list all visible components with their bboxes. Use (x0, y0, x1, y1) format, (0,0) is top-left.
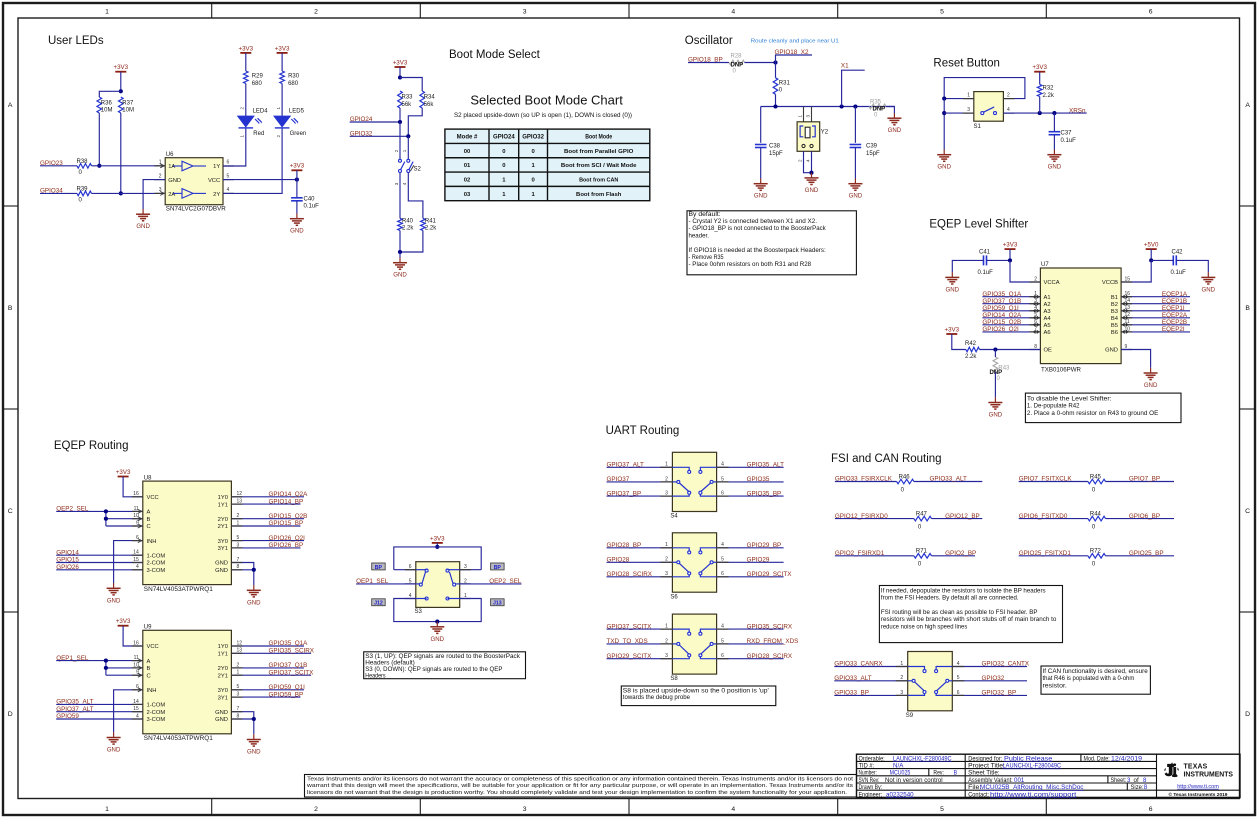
svg-text:1Y1: 1Y1 (218, 502, 228, 508)
svg-text:GPIO59_Q1I: GPIO59_Q1I (269, 684, 306, 691)
ground after R35 (887, 113, 901, 134)
svg-text:S6: S6 (670, 594, 678, 600)
svg-text:Reset Button: Reset Button (933, 58, 999, 70)
svg-text:B6: B6 (1111, 330, 1118, 336)
wire U9 to GPIO35_Q1A (231, 645, 304, 647)
ground under S3 (430, 622, 444, 643)
power +3V3 at U6 VCC (290, 163, 305, 171)
svg-text:RXD_FROM_XDS: RXD_FROM_XDS (747, 638, 799, 645)
wire QEP1_SEL to A/B/C pins (56, 660, 143, 662)
svg-text:+3V3: +3V3 (1003, 242, 1018, 249)
svg-text:GND: GND (1048, 164, 1062, 171)
node C37/XRSn (1052, 111, 1056, 115)
svg-text:6: 6 (721, 571, 724, 577)
svg-text:resistors will be branches wit: resistors will be branches with short st… (881, 616, 1057, 623)
svg-text:GPIO7_BP: GPIO7_BP (1129, 476, 1160, 483)
wire S6 pin 6 to GPIO29_SCITX (717, 576, 784, 578)
wire U7 to EQEP1A (1121, 296, 1190, 298)
resistor R32 2.2k (1037, 84, 1054, 98)
svg-text:6: 6 (721, 491, 724, 497)
wire C38 to ground (760, 148, 762, 179)
svg-text:4: 4 (721, 462, 724, 468)
wire junction to R36 (99, 91, 121, 97)
svg-text:EQEP2A: EQEP2A (1162, 312, 1188, 319)
op-amp buffer U6 SN74LVC2G07DBVR (165, 152, 226, 212)
wire U8 INH to ground (114, 541, 143, 584)
svg-text:5: 5 (721, 638, 724, 644)
svg-text:1Y0: 1Y0 (218, 495, 228, 501)
svg-text:LED4: LED4 (253, 108, 269, 114)
power +3V3 at R32 (1032, 64, 1047, 72)
ground at U9 INH (107, 732, 121, 753)
svg-text:S3: S3 (415, 609, 423, 615)
svg-text:4: 4 (731, 8, 735, 15)
wire U6 VCC to +3V3/C40 (223, 179, 297, 181)
svg-text:N/A: N/A (893, 764, 903, 770)
wire +3V3 to junction (399, 67, 401, 78)
wire node to U7 VCCA pin 2 (1010, 260, 1040, 282)
svg-text:© Texas Instruments 2019: © Texas Instruments 2019 (1169, 791, 1228, 798)
wire S9 pin 6 to GPIO32_BP (952, 694, 1027, 696)
wire R46 to GPIO33_ALT (914, 481, 982, 483)
wire GPIO6_FSITXD0 to R44 (1019, 518, 1088, 520)
wire GPIO7_FSITXCLK to R45 (1019, 481, 1088, 483)
LED LED4 Red (238, 107, 269, 138)
wire C37 to ground (1053, 135, 1055, 150)
wire S1 pin 1 (944, 98, 974, 100)
svg-text:B4: B4 (1111, 316, 1119, 322)
svg-text:2: 2 (394, 149, 399, 152)
svg-text:TXB0106PWR: TXB0106PWR (1041, 367, 1082, 373)
op-amp U9 SN74LV4053ATPWRQ1 analog mux (143, 625, 232, 743)
wire U7 to EQEP1B (1121, 303, 1190, 305)
crystal Y2 (797, 107, 829, 163)
pin numbers U8 left (133, 491, 139, 570)
pin stubs S1 (963, 99, 1015, 114)
svg-text:header.: header. (689, 232, 710, 239)
svg-text:FSI and CAN Routing: FSI and CAN Routing (831, 453, 942, 465)
wire S4 pin 6 to GPIO35_BP (717, 495, 784, 497)
svg-text:EQEP1B: EQEP1B (1162, 298, 1187, 305)
svg-text:Selected Boot Mode Chart: Selected Boot Mode Chart (470, 93, 623, 108)
svg-text:+3V3: +3V3 (393, 59, 408, 66)
svg-text:C38: C38 (769, 143, 781, 149)
svg-text:+3V3: +3V3 (944, 326, 959, 333)
svg-text:GND: GND (888, 127, 902, 134)
svg-text:+3V3: +3V3 (290, 163, 305, 170)
pin stubs U9 (132, 646, 243, 719)
wire node to R31 (775, 63, 777, 78)
ground under C39 (848, 179, 862, 200)
svg-text:0.1uF: 0.1uF (1061, 138, 1077, 144)
svg-text:6: 6 (957, 690, 960, 696)
wire R43 to ground (994, 372, 996, 397)
svg-text:R41: R41 (425, 218, 437, 224)
title block (857, 754, 1241, 797)
svg-text:+3V3: +3V3 (238, 45, 253, 52)
pin numbers U7 right (1125, 276, 1131, 350)
node boot divider top (398, 75, 402, 79)
node R36/GPIO23 (97, 164, 101, 168)
switch S3 (415, 562, 460, 615)
svg-text:C42: C42 (1172, 250, 1184, 256)
pin stubs S3 (405, 570, 471, 599)
svg-text:15pF: 15pF (769, 151, 783, 157)
svg-text:GND: GND (946, 286, 960, 293)
svg-text:680: 680 (288, 81, 299, 87)
svg-text:B: B (8, 305, 13, 312)
svg-text:LED5: LED5 (289, 108, 305, 114)
pin numbers U9 right (237, 640, 243, 719)
svg-text:GPIO59_BP: GPIO59_BP (269, 691, 304, 698)
wire U8 to GPIO14_Q2A (231, 496, 304, 498)
wire left rail to ground (943, 99, 945, 150)
wire S3 bottom loop (394, 599, 481, 622)
wire U6 1Y to LED4 (223, 129, 246, 167)
svg-text:GND: GND (754, 193, 768, 200)
wire S9 pin 5 to GPIO32 (952, 680, 1027, 682)
svg-text:R46: R46 (899, 474, 911, 480)
svg-text:R29: R29 (252, 74, 264, 80)
wire C41 to +3V3 node (986, 259, 1010, 261)
svg-text:towards the debug probe: towards the debug probe (623, 694, 690, 701)
svg-text:GND: GND (431, 636, 445, 643)
svg-text:licensors do not warrant that: licensors do not warrant that the design… (307, 790, 847, 796)
svg-text:2: 2 (1007, 92, 1010, 98)
svg-text:SVN Rev:: SVN Rev: (859, 778, 880, 784)
wire QEP2_SEL to A/B/C pins (56, 510, 143, 512)
svg-text:a0232540: a0232540 (886, 792, 914, 798)
wire reset loop (944, 78, 1025, 99)
wire TXD_TO_XDS to S8 pin 2 (607, 643, 673, 645)
resistor R33 56k (398, 91, 413, 108)
svg-text:4: 4 (227, 187, 230, 193)
svg-text:1: 1 (665, 542, 668, 548)
svg-text:3: 3 (394, 182, 399, 185)
pin stubs U8 (132, 497, 243, 570)
wire GPIO28 to S6 pin 2 (607, 561, 673, 563)
svg-text:3Y1: 3Y1 (218, 695, 228, 701)
op-amp U8 SN74LV4053ATPWRQ1 analog mux (143, 475, 232, 593)
svg-text:3Y1: 3Y1 (218, 546, 228, 552)
wire S8 pin 6 to GPIO28_SCIRX (717, 658, 784, 660)
wire S9 pin 4 to GPIO32_CANTX (952, 666, 1027, 668)
svg-text:0.1uF: 0.1uF (1171, 270, 1187, 276)
svg-text:A: A (147, 659, 151, 665)
svg-text:Oscillator: Oscillator (685, 35, 733, 47)
pin stubs U6 (154, 166, 234, 194)
wire R36 to GPIO23 net (98, 113, 100, 166)
note box CAN functionality (1041, 666, 1150, 694)
svg-text:B2: B2 (1111, 302, 1118, 308)
svg-text:GPIO35_ALT: GPIO35_ALT (747, 462, 784, 469)
svg-text:2Y: 2Y (213, 192, 220, 198)
power +3V3 at U9 VCC (116, 618, 131, 626)
wire S3 pin 3 (460, 569, 482, 571)
boot mode table (445, 129, 650, 201)
svg-text:INH: INH (147, 539, 157, 545)
svg-text:1: 1 (105, 8, 109, 15)
wire R38 to U6 pin 1 (92, 165, 166, 167)
svg-text:2: 2 (159, 173, 162, 179)
svg-text:+3V3: +3V3 (1032, 64, 1047, 71)
wire R42 to OE pin 8 (980, 349, 1041, 351)
svg-text:GPIO14_BP: GPIO14_BP (269, 498, 304, 505)
svg-text:1-COM: 1-COM (147, 703, 166, 709)
svg-text:LAUNCHXL-F280049C: LAUNCHXL-F280049C (893, 756, 952, 762)
svg-text:GND: GND (215, 561, 228, 567)
svg-text:+3V3: +3V3 (116, 618, 131, 625)
svg-text:56k: 56k (402, 102, 413, 108)
svg-text:Texas Instruments and/or its l: Texas Instruments and/or its licensors d… (307, 777, 854, 783)
resistor R28 DNP 0 (not populated) (729, 54, 745, 75)
note box FSI resistor isolation (879, 586, 1062, 643)
wire S8 pin 4 to GPIO35_SCIRX (717, 628, 784, 630)
svg-text:1: 1 (665, 624, 668, 630)
wire U9 to GPIO35_SCIRX (231, 652, 311, 654)
svg-text:GND: GND (215, 568, 228, 574)
wire R29 to LED4 (245, 84, 247, 117)
svg-text:Boot Mode Select: Boot Mode Select (449, 49, 541, 61)
svg-text:Boot from SCI / Wait Mode: Boot from SCI / Wait Mode (561, 163, 637, 169)
svg-text:Route cleanly and place near U: Route cleanly and place near U1 (751, 39, 839, 45)
svg-text:6: 6 (1149, 8, 1153, 15)
svg-text:4: 4 (806, 159, 811, 162)
svg-text:R38: R38 (77, 159, 89, 165)
svg-text:GPIO35_BP: GPIO35_BP (747, 490, 782, 497)
switch S9 (896, 652, 965, 719)
wire R47 to GPIO12_BP (932, 518, 983, 520)
svg-text:B: B (147, 666, 151, 672)
wire U9 INH to ground (114, 690, 143, 733)
wire +3V3 to R30 (281, 53, 283, 71)
node R31/bus (773, 104, 777, 108)
svg-text:B5: B5 (1111, 323, 1118, 329)
svg-text:Assembly Variant:: Assembly Variant: (968, 778, 1013, 784)
wire node to R43 (994, 350, 996, 358)
wire GPIO25_FSITXD1 to R72 (1019, 555, 1088, 557)
svg-text:680: 680 (252, 81, 263, 87)
wire R32 to XRSn node (1039, 97, 1041, 114)
svg-text:OE: OE (1044, 348, 1053, 354)
switch S2 (394, 149, 422, 185)
wire S1 pin 4 to XRSn (1003, 112, 1086, 114)
svg-text:4: 4 (721, 624, 724, 630)
ground under C42 (1201, 272, 1215, 293)
svg-text:1: 1 (665, 462, 668, 468)
svg-text:BP: BP (375, 565, 383, 571)
wire +3V3 bar to VCC node (296, 170, 298, 179)
svg-text:3: 3 (665, 491, 668, 497)
wire S6 pin 5 to GPIO29 (717, 561, 784, 563)
switch S6 (660, 533, 728, 601)
capacitor C39 15pF (850, 143, 880, 157)
svg-text:5: 5 (940, 806, 944, 813)
svg-text:A6: A6 (1044, 330, 1051, 336)
svg-text:2.2k: 2.2k (1043, 93, 1055, 99)
svg-text:15pF: 15pF (866, 151, 880, 157)
wire GPIO37_BP to S4 pin 3 (607, 495, 673, 497)
wire GPIO28_BP to S6 pin 1 (607, 547, 673, 549)
svg-text:R47: R47 (916, 511, 928, 517)
svg-text:Boot from CAN: Boot from CAN (579, 177, 618, 183)
svg-text:Red: Red (253, 131, 264, 137)
node GPIO18_X2 (773, 60, 777, 64)
wire GPIO59 to U9 (56, 718, 143, 720)
svg-text:SN74LV4053ATPWRQ1: SN74LV4053ATPWRQ1 (144, 736, 214, 742)
power +3V3 (R36/R37 pullups) (113, 64, 128, 72)
svg-text:GPIO25_BP: GPIO25_BP (1129, 550, 1164, 557)
note box oscillator default configuration (687, 211, 856, 275)
svg-text:D: D (1245, 711, 1250, 718)
svg-text:warrant that this design will: warrant that this design will meet the s… (307, 783, 853, 789)
svg-text:3-COM: 3-COM (147, 568, 166, 574)
node GPIO32/S2 (406, 134, 410, 138)
svg-text:GPIO28_SCIRX: GPIO28_SCIRX (747, 653, 793, 660)
wire GPIO26_Q2I to U7 (982, 331, 1040, 333)
svg-text:http://www.ti.com/support: http://www.ti.com/support (990, 792, 1077, 798)
wire R28 to node (745, 62, 776, 64)
svg-text:GPIO32_BP: GPIO32_BP (982, 690, 1017, 697)
svg-text:R72: R72 (1090, 549, 1102, 555)
node +5V0/C42 (1149, 258, 1153, 262)
svg-text:2Y0: 2Y0 (218, 666, 228, 672)
svg-text:1: 1 (240, 135, 245, 138)
svg-text:- Place 0ohm resistors on both: - Place 0ohm resistors on both R31 and R… (689, 261, 812, 268)
svg-text:GPIO29_SCITX: GPIO29_SCITX (747, 571, 793, 578)
wire R40 to ground node (399, 231, 401, 253)
wire R30 to LED5 (281, 84, 283, 117)
svg-text:+5V0: +5V0 (1144, 242, 1159, 249)
wire U8 to GPIO26_BP (231, 547, 300, 549)
wire GPIO15_Q2B to U7 (982, 324, 1040, 326)
resistor R39 0 (77, 187, 92, 204)
wire GPIO37_ALT to S4 pin 1 (607, 466, 673, 468)
resistor R42 2.2k (965, 341, 980, 360)
svg-text:GND: GND (937, 164, 951, 171)
svg-text:2-COM: 2-COM (147, 561, 166, 567)
wire +5V0 bar to node (1150, 249, 1152, 260)
wire GPIO33_CANRX to S9 pin 1 (834, 666, 907, 668)
svg-text:EQEP1I: EQEP1I (1162, 305, 1185, 312)
svg-text:Boot from Parallel GPIO: Boot from Parallel GPIO (564, 149, 634, 155)
svg-text:TEXAS: TEXAS (1184, 764, 1208, 771)
svg-text:R40: R40 (402, 218, 414, 224)
svg-text:D: D (8, 711, 13, 718)
svg-text:2Y0: 2Y0 (218, 517, 228, 523)
power +3V3 at R42 (944, 326, 959, 334)
svg-text:B: B (954, 771, 957, 777)
wire GPIO34 to R39 (40, 192, 77, 194)
svg-text:GND: GND (393, 272, 407, 279)
ground at U9 GND pins (247, 734, 261, 755)
wire GPIO37 to S4 pin 2 (607, 481, 673, 483)
svg-text:2Y1: 2Y1 (218, 673, 228, 679)
svg-text:02: 02 (464, 177, 471, 183)
wire R31 to oscillator bus (775, 94, 777, 106)
svg-text:from the FSI Headers. By defau: from the FSI Headers. By default all are… (881, 595, 1019, 602)
svg-text:S2 placed upside-down (so UP i: S2 placed upside-down (so UP is open (1)… (454, 112, 632, 119)
wire +5V0 node to C42 (1151, 259, 1173, 261)
svg-text:C39: C39 (866, 143, 878, 149)
svg-text:R32: R32 (1043, 85, 1055, 91)
wire GPIO35_ALT to U9 (56, 703, 143, 705)
svg-text:GND: GND (989, 412, 1003, 419)
svg-text:6: 6 (1149, 806, 1153, 813)
svg-text:GPIO26_BP: GPIO26_BP (269, 542, 304, 549)
switch S1 pushbutton (974, 92, 1004, 130)
svg-text:3Y0: 3Y0 (218, 688, 228, 694)
svg-text:- Crystal Y2 is connected betw: - Crystal Y2 is connected between X1 and… (689, 218, 818, 225)
resistor R71 0 (914, 549, 932, 568)
svg-text:2-COM: 2-COM (147, 710, 166, 716)
svg-text:2: 2 (900, 675, 903, 681)
wire S8 pin 5 to RXD_FROM_XDS (717, 643, 784, 645)
svg-text:R33: R33 (402, 95, 414, 101)
wire GPIO24 node to S2 pin 2 (399, 122, 401, 159)
node QEP1_SEL A (104, 659, 108, 663)
node +3V3 junction (119, 89, 123, 93)
wire S2 pin 4 to R41 (408, 173, 423, 219)
ground at U8 GND pins (247, 585, 261, 606)
capacitor C40 0.1uF (291, 196, 319, 209)
ground under C37 (1047, 150, 1061, 171)
svg-text:Rev:: Rev: (933, 771, 944, 777)
svg-text:U6: U6 (166, 152, 174, 158)
node U8 GND (252, 568, 256, 572)
wire S6 pin 4 to GPIO29_BP (717, 547, 784, 549)
svg-text:3: 3 (665, 571, 668, 577)
svg-text:GPIO24: GPIO24 (493, 135, 515, 141)
wire R71 to GPIO2_BP (932, 555, 976, 557)
ground reset button (937, 150, 951, 171)
wire GPIO14 to U8 (56, 554, 143, 556)
resistor R41 2.2k (421, 218, 438, 231)
resistor R47 0 (914, 511, 932, 530)
op-amp U7 TXB0106PWR level shifter (1040, 262, 1121, 373)
node +3V3/C41 (1008, 258, 1012, 262)
svg-text:S8: S8 (670, 676, 678, 682)
wire node to C40 (296, 180, 298, 198)
svg-text:A2: A2 (1044, 302, 1051, 308)
LED LED5 Green (274, 107, 306, 138)
svg-text:VCC: VCC (208, 178, 220, 184)
svg-text:4: 4 (731, 806, 735, 813)
svg-text:A3: A3 (1044, 309, 1051, 315)
svg-text:S4: S4 (670, 514, 678, 520)
svg-text:2Y1: 2Y1 (218, 524, 228, 530)
svg-text:EQEP1A: EQEP1A (1162, 291, 1188, 298)
svg-text:GND: GND (107, 747, 121, 754)
svg-text:Designed for:: Designed for: (968, 756, 1002, 762)
pin numbers S9 (900, 661, 959, 696)
svg-text:resistor.: resistor. (1043, 682, 1067, 689)
svg-text:3-COM: 3-COM (147, 717, 166, 723)
svg-text:2: 2 (798, 159, 803, 162)
power +3V3 at R30 (275, 45, 290, 53)
svg-text:C: C (147, 524, 151, 530)
svg-text:Contact:: Contact: (968, 792, 989, 798)
svg-text:Mod. Date:: Mod. Date: (1084, 756, 1110, 762)
svg-text:Boot Mode: Boot Mode (585, 135, 613, 141)
ground under U7 pin 9 (1144, 368, 1158, 389)
ground under Y2 (805, 173, 819, 194)
wire S3 pin 2 to QEP2_SEL (460, 583, 522, 585)
svg-text:Orderable:: Orderable: (859, 756, 885, 762)
wire R45 to GPIO7_BP (1106, 481, 1175, 483)
wire GPIO29_SCITX to S8 pin 3 (607, 658, 673, 660)
ground under U6 (136, 209, 150, 230)
